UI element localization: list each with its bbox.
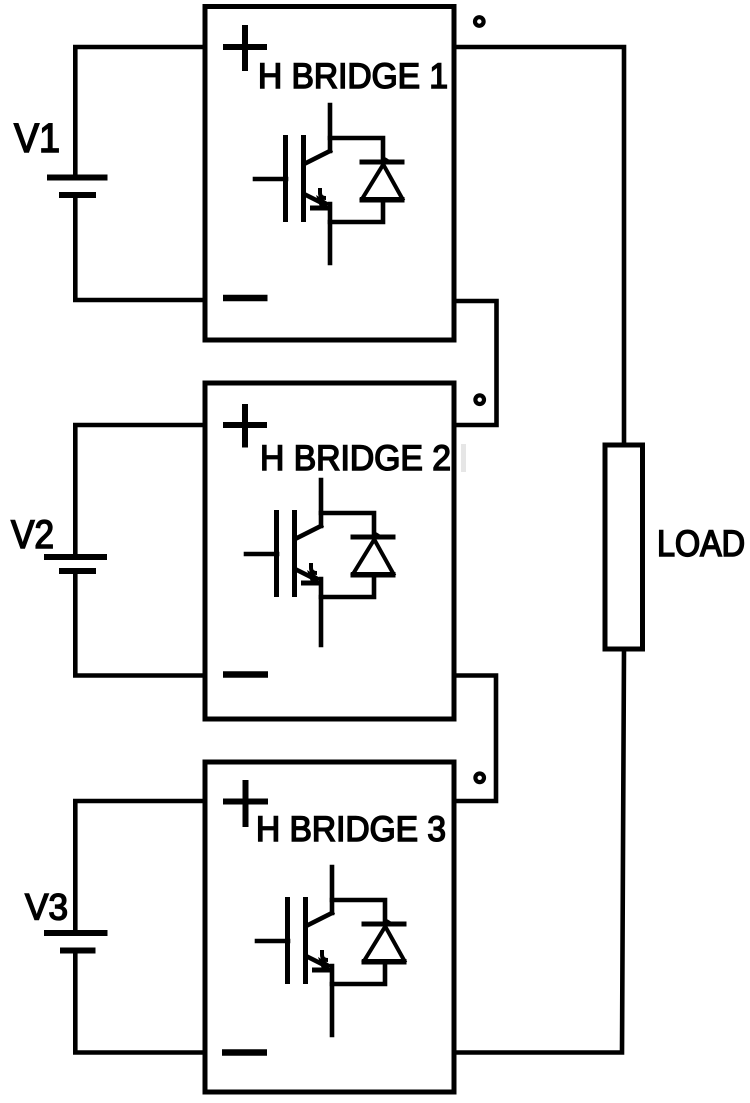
emitter under-bar Q1	[310, 206, 332, 211]
diode D1 anode bar	[360, 198, 405, 203]
label V2	[11, 520, 52, 548]
scan artifact smudge	[461, 444, 466, 472]
diode D1 cathode bar	[360, 160, 405, 165]
terminal circle box 2	[475, 395, 484, 404]
diode D2 cathode bar	[351, 535, 396, 540]
IGBT cell 2	[246, 480, 396, 645]
wire battery V1 minus to box 1	[75, 195, 205, 300]
body bar Q3	[303, 897, 308, 984]
battery V3 plates	[44, 930, 108, 936]
wire diode D1 anode to emitter	[330, 200, 383, 222]
minus terminal box 3	[222, 1049, 267, 1056]
collector lead Q1	[328, 105, 333, 151]
diode D3 triangle	[364, 922, 405, 961]
terminal circle box 1	[475, 17, 484, 26]
H-bridge box 2	[205, 383, 454, 719]
gate bar Q3	[285, 897, 290, 984]
collector diagonal Q1	[304, 151, 330, 164]
emitter diagonal Q3	[306, 956, 324, 965]
battery V2 plates	[44, 554, 107, 560]
battery V3	[75, 801, 205, 1053]
diode D1 triangle	[362, 160, 403, 199]
wire battery V1 plus to box 1	[75, 47, 205, 177]
collector diagonal Q3	[306, 913, 332, 926]
emitter hook Q3	[322, 950, 328, 960]
plus terminal box 2	[223, 404, 267, 448]
wire collector to diode D1	[330, 138, 383, 162]
battery V2	[75, 425, 205, 676]
emitter lead Q3	[330, 966, 335, 1035]
diode D2 anode bar	[351, 573, 396, 578]
battery V1	[75, 47, 205, 300]
emitter diagonal Q2	[295, 569, 313, 578]
emitter arrow Q3	[318, 957, 332, 972]
label LOAD	[660, 530, 744, 556]
emitter arrow Q2	[307, 570, 321, 585]
wire battery V3 plus to box 3	[75, 801, 205, 933]
wire collector to diode D3	[332, 900, 385, 924]
gate bar Q1	[283, 135, 288, 222]
collector diagonal Q2	[295, 526, 321, 539]
wire diode D3 anode to emitter	[332, 962, 385, 984]
connector wire box1 minus to box2 plus	[454, 301, 497, 425]
label H BRIDGE 3	[259, 816, 445, 841]
emitter hook Q1	[320, 188, 326, 198]
emitter lead Q1	[328, 204, 333, 263]
H-bridge box 3	[205, 762, 454, 1092]
gate lead Q2	[246, 552, 277, 557]
wire battery V2 minus to box 2	[75, 571, 205, 676]
diode D2 triangle	[353, 535, 394, 574]
emitter lead Q2	[319, 579, 324, 645]
wire battery V3 minus to box 3	[75, 951, 205, 1053]
emitter under-bar Q2	[301, 581, 323, 586]
IGBT cell 1	[255, 105, 405, 263]
emitter hook Q2	[311, 563, 317, 573]
diode D3 cathode bar	[362, 922, 407, 927]
emitter under-bar Q3	[312, 968, 334, 973]
gate lead Q3	[257, 939, 288, 944]
collector lead Q3	[330, 867, 335, 913]
emitter diagonal Q1	[304, 194, 322, 203]
minus terminal box 1	[223, 295, 268, 302]
wire battery V2 plus to box 2	[75, 425, 205, 557]
diode D3 anode bar	[362, 960, 407, 965]
wire collector to diode D2	[321, 513, 374, 537]
load bus bottom	[454, 649, 624, 1053]
label V3	[25, 894, 66, 920]
terminal circle box 3	[475, 774, 484, 783]
connector wire box2 minus to box3 plus	[454, 676, 496, 802]
gate lead Q1	[255, 177, 286, 182]
body bar Q1	[301, 135, 306, 222]
label H BRIDGE 1	[261, 63, 447, 88]
H-bridge box 1	[205, 7, 454, 341]
label H BRIDGE 2	[263, 445, 450, 470]
LOAD resistor	[605, 445, 643, 649]
wire diode D2 anode to emitter	[321, 575, 374, 597]
body bar Q2	[292, 510, 297, 597]
minus terminal box 2	[223, 671, 268, 678]
gate bar Q2	[274, 510, 279, 597]
IGBT cell 3	[257, 867, 407, 1035]
battery V1 plates	[47, 175, 108, 181]
label V1	[14, 124, 58, 152]
output wire box 1 top to load bus	[454, 47, 624, 445]
collector lead Q2	[319, 480, 324, 526]
plus terminal box 1	[223, 25, 267, 71]
plus terminal box 3	[223, 780, 268, 827]
emitter arrow Q1	[316, 195, 330, 210]
